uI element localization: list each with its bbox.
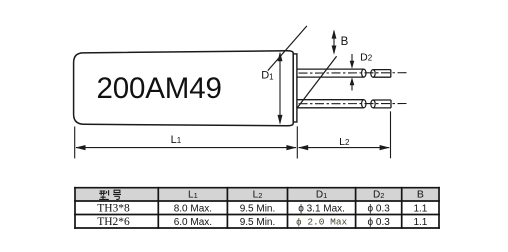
bottom lead end ellipse <box>362 100 366 108</box>
table horizontal border under header <box>74 200 440 202</box>
L1 right arrowhead <box>286 145 296 150</box>
svg-text:ϕ 0.3: ϕ 0.3 <box>368 217 391 228</box>
svg-text:6.0 Max.: 6.0 Max. <box>174 217 212 228</box>
D2 lower arrowhead <box>350 77 355 85</box>
svg-text:L1: L1 <box>188 190 198 201</box>
svg-text:D2: D2 <box>373 190 384 201</box>
svg-text:L2: L2 <box>339 136 350 148</box>
table vertical border left <box>74 187 76 229</box>
L1/L2 shared extension line <box>296 126 298 158</box>
svg-text:TH2*6: TH2*6 <box>97 216 130 228</box>
table vertical border right <box>438 187 440 229</box>
L2 right arrowhead <box>380 145 390 150</box>
svg-text:B: B <box>417 189 424 201</box>
B bottom arrowhead <box>332 46 337 55</box>
svg-text:8.0 Max.: 8.0 Max. <box>174 203 212 214</box>
B dimension line <box>333 31 335 53</box>
svg-text:9.5 Min.: 9.5 Min. <box>240 203 276 214</box>
D1 top arrowhead <box>278 52 283 62</box>
top lead break segment <box>373 70 391 78</box>
table vertical border col6 <box>401 187 403 229</box>
svg-text:200AM49: 200AM49 <box>97 72 222 105</box>
bottom lead break segment left ellipse <box>371 100 375 108</box>
D2 lower arrow line <box>351 80 353 91</box>
L1 left arrowhead <box>75 145 85 150</box>
table vertical border col4 <box>287 187 289 229</box>
svg-text:ϕ 2.0 Max: ϕ 2.0 Max <box>296 217 348 228</box>
svg-text:L1: L1 <box>171 134 182 146</box>
table vertical border col5 <box>355 187 357 229</box>
top lead centerline <box>299 72 409 74</box>
table header glyph 型 (drawn strokes) <box>99 190 109 199</box>
svg-text:1.1: 1.1 <box>413 217 427 228</box>
L2 dimension line <box>299 147 390 149</box>
D1 dimension line <box>279 53 281 124</box>
svg-text:D2: D2 <box>360 51 373 63</box>
bottom lead break segment <box>373 100 391 108</box>
table horizontal border mid <box>74 214 440 216</box>
top lead pin <box>297 69 363 77</box>
svg-text:ϕ 3.1 Max.: ϕ 3.1 Max. <box>298 203 345 214</box>
table vertical border col2 <box>157 187 159 229</box>
top lead break segment left ellipse <box>371 70 375 78</box>
svg-text:D1: D1 <box>261 70 274 82</box>
B top arrowhead <box>332 29 337 38</box>
crystal body outline <box>74 51 294 126</box>
top lead end ellipse <box>362 69 366 77</box>
table header background <box>76 189 438 201</box>
leader diagonal from D1 label <box>268 26 307 71</box>
D1 bottom arrowhead <box>278 115 283 125</box>
table vertical border col3 <box>226 187 228 229</box>
leader diagonal to B arrow <box>297 56 336 107</box>
D2 upper arrowhead <box>350 61 355 69</box>
svg-text:B: B <box>341 36 349 48</box>
bottom lead centerline <box>299 103 408 105</box>
table header glyph 号 (drawn strokes) <box>113 190 121 199</box>
svg-text:ϕ 0.3: ϕ 0.3 <box>368 203 391 214</box>
table horizontal border bottom <box>74 227 440 229</box>
bottom lead pin <box>297 100 363 108</box>
table horizontal border top <box>74 187 440 189</box>
D2 upper arrow line <box>351 54 353 67</box>
svg-text:L2: L2 <box>253 190 263 201</box>
L2 right extension line <box>390 111 392 158</box>
L1 dimension line <box>76 147 296 149</box>
L2 left arrowhead <box>298 145 308 150</box>
svg-text:TH3*8: TH3*8 <box>97 203 130 215</box>
svg-text:9.5 Min.: 9.5 Min. <box>240 217 276 228</box>
L1 left extension line <box>74 127 76 159</box>
svg-text:1.1: 1.1 <box>413 203 427 214</box>
svg-text:D1: D1 <box>316 190 327 201</box>
crystal base cap <box>293 54 297 122</box>
